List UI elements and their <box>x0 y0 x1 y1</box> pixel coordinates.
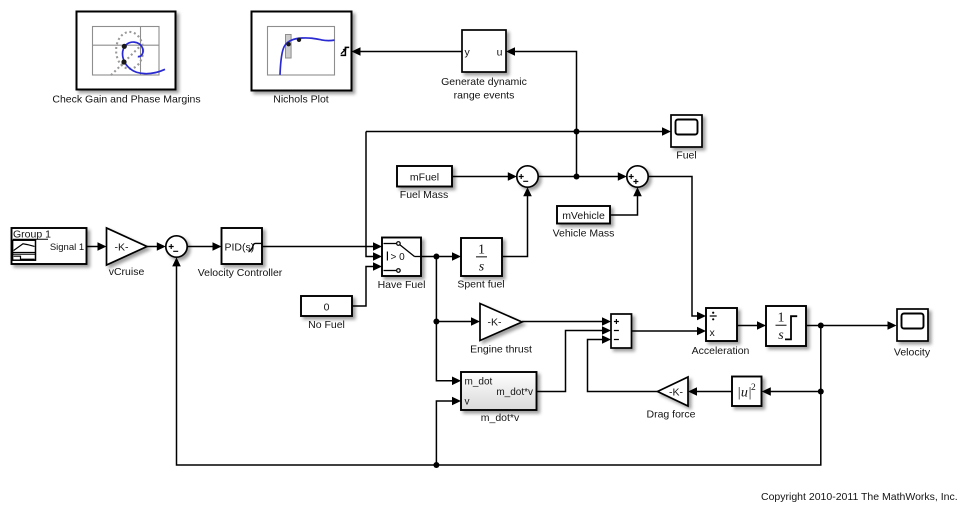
junction velocity feedback at v branch <box>433 462 439 468</box>
wire velocity to m_dot*v v input <box>436 397 461 465</box>
svg-text:Generate dynamic: Generate dynamic <box>441 76 527 88</box>
subsystem block m_dot*v <box>461 372 537 410</box>
wire PID to Have Fuel input 1 <box>262 242 382 251</box>
svg-text:-K-: -K- <box>115 242 130 254</box>
svg-text:No Fuel: No Fuel <box>308 319 345 331</box>
svg-text:> 0: > 0 <box>391 252 406 263</box>
svg-text:-K-: -K- <box>488 317 503 329</box>
divide block Acceleration <box>706 308 737 341</box>
svg-text:mFuel: mFuel <box>410 172 439 184</box>
svg-text:v: v <box>465 397 470 408</box>
svg-text:Velocity Controller: Velocity Controller <box>198 267 283 279</box>
wire mFuel to sum S2 <box>452 172 517 181</box>
junction Have Fuel output branch <box>433 254 439 260</box>
wire Have Fuel output to Spent fuel <box>421 252 461 261</box>
wire m_dot*v output to sum S4 minus 1 <box>537 326 612 391</box>
svg-text:Group 1: Group 1 <box>13 229 51 241</box>
svg-text:Fuel: Fuel <box>676 150 696 162</box>
wire integrator to Velocity scope <box>806 321 897 330</box>
svg-text:x: x <box>710 327 716 339</box>
block U2 Nichols Plot <box>252 12 352 91</box>
wire Drag force to sum S4 minus 2 <box>588 335 658 391</box>
svg-text:-K-: -K- <box>669 387 684 399</box>
junction fuel rate at Engine thrust branch <box>433 319 439 325</box>
svg-text:Nichols Plot: Nichols Plot <box>273 94 329 106</box>
svg-text:mVehicle: mVehicle <box>562 210 605 222</box>
math block |u|^2 <box>732 377 762 407</box>
junction fuel line at scope branch <box>574 129 580 135</box>
trigger port icon on Nichols Plot <box>341 47 350 55</box>
wire fuel signal to Generate events u input <box>506 47 577 176</box>
svg-text:u: u <box>497 47 503 59</box>
wire fuel signal down to Have Fuel control input <box>366 132 382 261</box>
wire Acceleration to integrator <box>737 321 766 330</box>
svg-text:Acceleration: Acceleration <box>692 345 750 357</box>
wire fuel signal to Fuel scope <box>366 127 671 136</box>
svg-text:1: 1 <box>778 311 785 326</box>
wire sum S4 to Acceleration x input <box>632 327 707 336</box>
gain vCruise <box>107 228 148 265</box>
constant block mFuel <box>397 166 452 187</box>
block U1 Check Gain and Phase Margins <box>77 12 176 90</box>
junction sum S2 output branch <box>574 174 580 180</box>
svg-text:|u|: |u| <box>737 386 752 401</box>
svg-text:Vehicle Mass: Vehicle Mass <box>553 228 615 240</box>
constant block No Fuel (0) <box>301 296 352 316</box>
sum S1 velocity error (+-) <box>166 236 187 257</box>
PID controller block <box>222 228 263 264</box>
svg-text:range events: range events <box>454 90 515 102</box>
wire fuel rate down to m_dot input <box>436 257 461 386</box>
svg-text:Spent fuel: Spent fuel <box>457 279 504 291</box>
wire mVehicle to sum S3 plus input <box>610 187 642 215</box>
svg-text:s: s <box>778 328 784 343</box>
svg-text:Copyright 2010-2011 The MathWo: Copyright 2010-2011 The MathWorks, Inc. <box>761 491 958 503</box>
switch block Have Fuel <box>382 238 421 277</box>
svg-text:Drag force: Drag force <box>646 409 695 421</box>
sum S3 total mass (++) <box>627 166 648 187</box>
svg-text:0: 0 <box>324 302 330 314</box>
svg-text:m_dot: m_dot <box>465 377 493 388</box>
wire Signal Builder to vCruise <box>87 242 107 251</box>
sum S2 fuel remaining (+-) <box>517 166 538 187</box>
constant block mVehicle <box>557 206 610 224</box>
wire No Fuel to Have Fuel input 3 <box>352 262 382 306</box>
svg-text:Check Gain and Phase Margins: Check Gain and Phase Margins <box>52 94 200 106</box>
svg-text:Fuel Mass: Fuel Mass <box>400 189 448 201</box>
sum S4 net force (+--) <box>611 314 632 348</box>
svg-text:y: y <box>465 47 471 59</box>
wire sum S3 to Acceleration divide input <box>648 177 706 321</box>
svg-text:vCruise: vCruise <box>109 266 145 278</box>
wire Generate events y output to Nichols Plot trigger <box>352 47 463 56</box>
svg-text:Velocity: Velocity <box>894 347 931 359</box>
svg-text:m_dot*v: m_dot*v <box>496 387 533 398</box>
block U3 Generate dynamic range events <box>462 30 506 72</box>
wire Spent fuel to sum S2 minus input <box>502 187 532 256</box>
signal builder block Group 1 <box>12 228 87 264</box>
wire Engine thrust to sum S4 plus <box>522 317 611 326</box>
wire fuel rate to Engine thrust <box>436 317 480 326</box>
integrator block Spent fuel <box>461 238 502 276</box>
wire |u|^2 to Drag force <box>688 387 732 396</box>
scope block Fuel <box>671 115 702 147</box>
integrator block 1/s (velocity) <box>766 306 806 346</box>
svg-text:Signal 1: Signal 1 <box>50 242 84 253</box>
svg-text:1: 1 <box>478 243 485 258</box>
svg-text:Have Fuel: Have Fuel <box>378 279 426 291</box>
wire velocity feedback to sum S1 minus input <box>172 257 821 465</box>
svg-text:2: 2 <box>751 383 756 393</box>
wire vCruise to sum S1 <box>147 242 166 251</box>
svg-text:s: s <box>479 260 485 275</box>
gain Drag force (points left) <box>658 377 689 406</box>
svg-text:Engine thrust: Engine thrust <box>470 344 532 356</box>
junction velocity to |u|^2 branch <box>818 389 824 395</box>
gain Engine thrust <box>480 304 522 341</box>
scope block Velocity <box>897 309 928 341</box>
svg-text:m_dot*v: m_dot*v <box>481 412 520 424</box>
wire sum S1 to PID <box>187 242 221 251</box>
wire sum S2 to sum S3 <box>538 172 627 181</box>
wire velocity to |u|^2 <box>762 387 821 396</box>
junction velocity output branch <box>818 323 824 329</box>
